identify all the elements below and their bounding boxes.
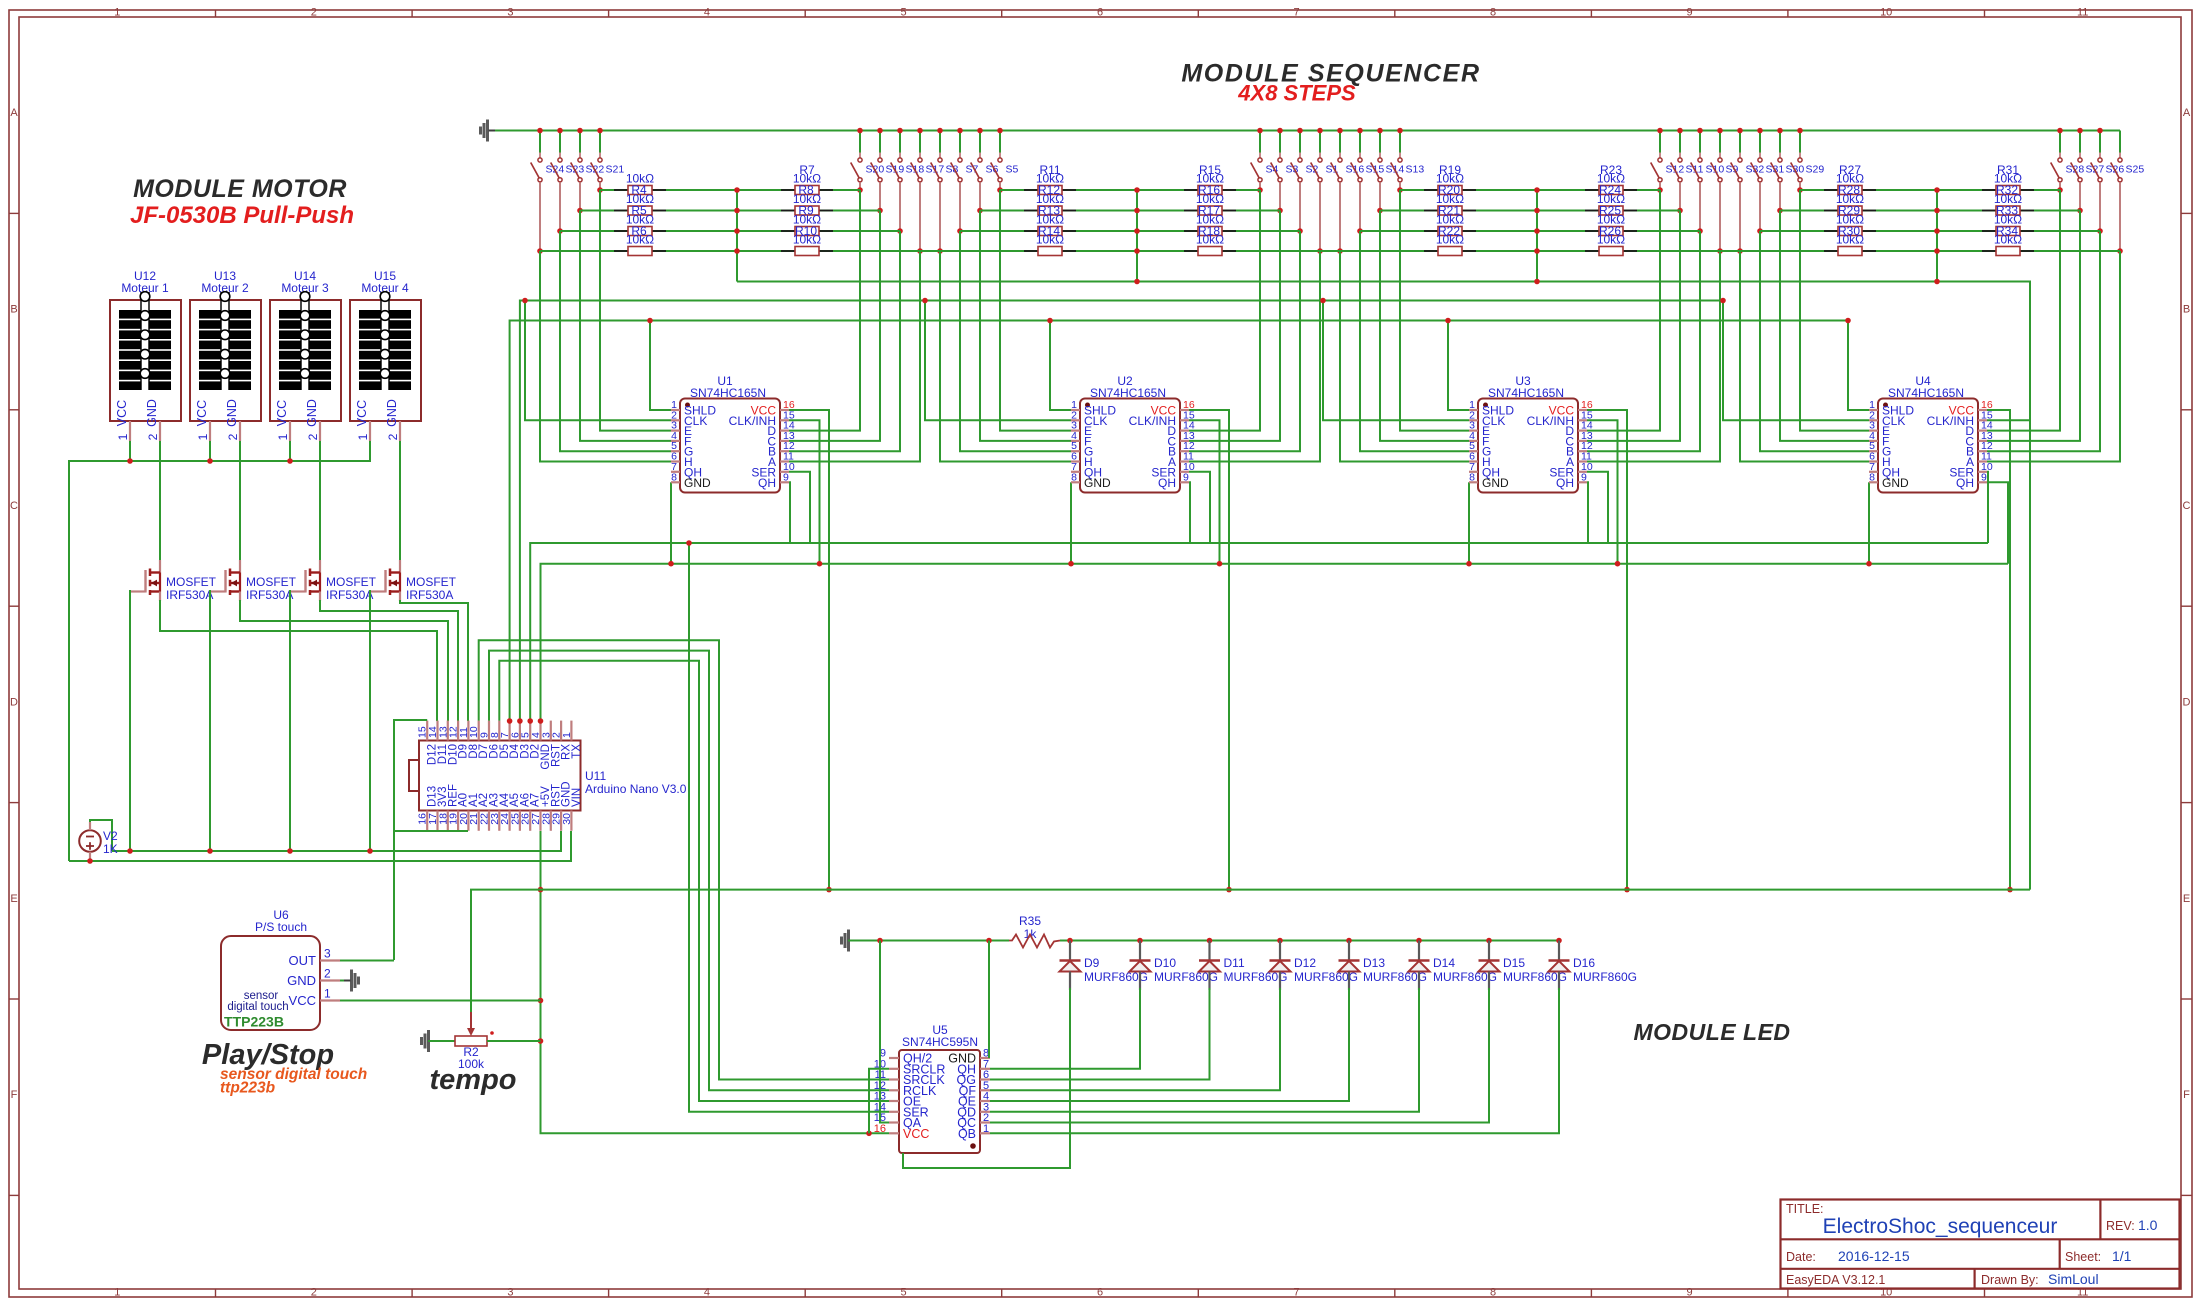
svg-text:9: 9: [1581, 471, 1587, 483]
svg-text:8: 8: [1469, 471, 1475, 483]
svg-text:10kΩ: 10kΩ: [1597, 233, 1625, 247]
resistor R17: [1184, 192, 1236, 218]
resistor R32: [1982, 172, 2034, 198]
wire input B: [1987, 231, 2100, 451]
transistor MOSFET IRF530A Q1: [130, 560, 217, 602]
svg-text:D11: D11: [1224, 956, 1245, 970]
svg-text:MODULE LED: MODULE LED: [1633, 1019, 1790, 1045]
wire CLK/INH drop: [1189, 420, 1220, 563]
svg-text:10kΩ: 10kΩ: [1836, 192, 1864, 206]
diode D15 MURF860G: [1479, 938, 1568, 990]
wire motor VCC rail: [69, 441, 370, 861]
wire gate bus: [112, 831, 561, 851]
resistor R33: [1982, 192, 2034, 218]
svg-text:10kΩ: 10kΩ: [626, 192, 654, 206]
svg-text:10kΩ: 10kΩ: [1036, 213, 1064, 227]
wire input D: [1587, 190, 1660, 431]
svg-text:D15: D15: [1503, 956, 1525, 970]
svg-text:8: 8: [1490, 1287, 1496, 1299]
svg-text:E: E: [10, 893, 17, 905]
IC U6 P/S touch TTP223B: [221, 908, 340, 1030]
wire input G: [1360, 231, 1469, 451]
svg-text:1: 1: [196, 433, 210, 440]
svg-text:10kΩ: 10kΩ: [1436, 192, 1464, 206]
wire bus SER chain: [530, 543, 1988, 721]
svg-text:ttp223b: ttp223b: [220, 1080, 276, 1097]
wire motor VCC stub: [289, 441, 291, 461]
svg-text:VCC: VCC: [355, 400, 369, 426]
svg-text:3: 3: [507, 7, 513, 19]
svg-text:2: 2: [311, 1287, 317, 1299]
wire D5 to U5 OE: [499, 661, 889, 1101]
svg-text:GND: GND: [145, 399, 159, 427]
svg-text:digital touch: digital touch: [227, 1001, 288, 1013]
svg-text:10kΩ: 10kΩ: [793, 233, 821, 247]
switch S20: [851, 128, 885, 193]
resistor R12: [1024, 172, 1076, 198]
svg-text:10kΩ: 10kΩ: [626, 172, 654, 186]
svg-text:2016-12-15: 2016-12-15: [1838, 1248, 1910, 1264]
resistor (unlabeled): [1024, 233, 1076, 256]
wire QH drop: [789, 482, 790, 543]
svg-text:30: 30: [561, 813, 573, 825]
svg-text:9: 9: [1687, 1287, 1693, 1299]
wire SHLD riser: [650, 321, 671, 411]
svg-text:1: 1: [114, 1287, 120, 1299]
svg-text:10kΩ: 10kΩ: [1597, 213, 1625, 227]
svg-text:10kΩ: 10kΩ: [1436, 172, 1464, 186]
resistor R34: [1982, 213, 2034, 239]
wire bus C: [510, 321, 1848, 722]
wire R2 left: [428, 1040, 455, 1042]
svg-text:1: 1: [983, 1123, 989, 1135]
wire resistor row 1 segments: [600, 189, 860, 191]
wire input F: [580, 211, 671, 441]
wire resistor row 4 bus: [540, 250, 2120, 252]
wire GND drop: [670, 482, 672, 563]
switch S13: [1391, 128, 1425, 193]
svg-text:JF-0530B Pull-Push: JF-0530B Pull-Push: [130, 202, 354, 229]
svg-text:GND: GND: [684, 476, 711, 490]
svg-text:U11: U11: [585, 769, 606, 783]
svg-text:GND: GND: [385, 399, 399, 427]
wire LED GND rail left: [848, 940, 1009, 942]
wire R2 right: [487, 1040, 541, 1042]
svg-text:MOSFET: MOSFET: [246, 575, 297, 589]
switch S1: [1311, 128, 1339, 254]
switch S21: [591, 128, 625, 193]
wire bus B: [520, 301, 1723, 722]
wire SER drop: [1587, 472, 1608, 543]
svg-text:8: 8: [1071, 471, 1077, 483]
svg-text:10kΩ: 10kΩ: [1836, 233, 1864, 247]
IC U5 SN74HC595N: [874, 1023, 990, 1153]
svg-text:QH: QH: [1158, 476, 1176, 490]
wire VCC drop: [1587, 410, 1627, 890]
svg-text:A: A: [10, 107, 18, 119]
wire VCC drop: [1189, 410, 1229, 890]
ground: [420, 1037, 423, 1045]
resistor (unlabeled): [1424, 233, 1476, 256]
svg-text:10kΩ: 10kΩ: [1036, 233, 1064, 247]
wire U3 input E: [1400, 190, 1469, 431]
diode D9 MURF860G: [1060, 938, 1149, 990]
wire U2 input E: [1000, 190, 1071, 431]
svg-text:8: 8: [671, 471, 677, 483]
svg-text:IRF530A: IRF530A: [166, 588, 213, 602]
switch S3: [1271, 128, 1299, 214]
motor connector U15 Moteur 4: [350, 269, 421, 441]
svg-text:TITLE:: TITLE:: [1786, 1202, 1824, 1216]
wire bus A: [737, 282, 2030, 890]
svg-text:D12: D12: [1294, 956, 1316, 970]
resistor R4: [614, 172, 666, 198]
wire MOSFET gates to V2 line: [129, 590, 131, 851]
resistor R30: [1824, 213, 1876, 239]
resistor (unlabeled): [614, 233, 666, 256]
svg-text:D: D: [2183, 696, 2191, 708]
transistor MOSFET IRF530A Q3: [290, 560, 377, 602]
wire GND drop: [1468, 482, 1470, 563]
switch S10: [1691, 128, 1725, 234]
svg-text:10kΩ: 10kΩ: [1436, 233, 1464, 247]
wire CLK/INH drop: [1987, 419, 2030, 421]
resistor R35 1k: [1009, 914, 1060, 948]
resistor R25: [1585, 192, 1637, 218]
switch S12: [1651, 128, 1685, 193]
svg-text:10kΩ: 10kΩ: [1836, 172, 1864, 186]
switch S32: [1731, 128, 1765, 254]
wire VCC drop: [789, 410, 829, 890]
svg-text:10kΩ: 10kΩ: [1196, 172, 1224, 186]
wire V2 minus rail: [69, 831, 571, 861]
wire GND rail to U5 QA: [880, 941, 889, 1123]
svg-text:1: 1: [114, 7, 120, 19]
wire input A: [789, 251, 920, 462]
wire input C: [1189, 211, 1280, 441]
svg-text:P/S touch: P/S touch: [255, 920, 307, 934]
svg-text:7: 7: [1293, 1287, 1299, 1299]
switch S15: [1351, 128, 1385, 234]
wire input H: [1340, 251, 1469, 462]
svg-text:1.0: 1.0: [2138, 1217, 2158, 1233]
wire GND drop: [1070, 482, 1072, 563]
wire D7 to U5 SRCLK: [479, 640, 889, 1079]
resistor (unlabeled): [1184, 233, 1236, 256]
wire input F: [980, 211, 1071, 441]
svg-text:IRF530A: IRF530A: [406, 588, 453, 602]
wire CLK riser: [1323, 301, 1469, 421]
svg-text:V2: V2: [103, 829, 118, 843]
wire U6 GND: [340, 980, 352, 982]
switch S26: [2091, 128, 2125, 234]
wire MOSFET sources to U11: [160, 600, 437, 721]
resistor R9: [781, 192, 833, 218]
switch S24: [531, 128, 565, 254]
svg-text:VIN: VIN: [571, 788, 583, 807]
svg-text:QH: QH: [758, 476, 776, 490]
svg-text:16: 16: [874, 1123, 886, 1135]
wire QH drop: [1987, 482, 2008, 563]
wire SER drop: [1987, 472, 1988, 543]
svg-text:S13: S13: [1406, 164, 1425, 176]
svg-text:7: 7: [1293, 7, 1299, 19]
wire motor VCC stub: [129, 441, 131, 461]
ground: [357, 977, 360, 985]
svg-text:3: 3: [507, 1287, 513, 1299]
switch S16: [1331, 128, 1365, 254]
switch S5: [991, 128, 1019, 193]
wire U6 OUT: [340, 960, 394, 962]
svg-text:10kΩ: 10kΩ: [1994, 192, 2022, 206]
diode D12 MURF860G: [1270, 938, 1359, 990]
wire input A: [1587, 251, 1720, 462]
svg-text:9: 9: [783, 471, 789, 483]
svg-text:1K: 1K: [103, 842, 118, 856]
svg-text:9: 9: [1687, 7, 1693, 19]
svg-text:3: 3: [324, 947, 331, 961]
svg-text:1/1: 1/1: [2112, 1248, 2132, 1264]
svg-text:10kΩ: 10kΩ: [1036, 192, 1064, 206]
svg-text:10kΩ: 10kΩ: [1597, 192, 1625, 206]
svg-text:GND: GND: [287, 973, 316, 988]
svg-text:R35: R35: [1019, 914, 1041, 928]
resistor (unlabeled): [1982, 233, 2034, 256]
svg-text:QH: QH: [1556, 476, 1574, 490]
svg-text:4: 4: [704, 1287, 710, 1299]
wire SHLD riser: [1448, 321, 1469, 411]
switch S14: [1371, 128, 1405, 214]
svg-text:Arduino Nano V3.0: Arduino Nano V3.0: [585, 782, 687, 796]
ground: [840, 937, 843, 945]
svg-text:C: C: [2183, 500, 2191, 512]
resistor R21: [1424, 192, 1476, 218]
switch S2: [1291, 128, 1319, 234]
wire QH drop: [1189, 482, 1190, 543]
svg-text:REV:: REV:: [2106, 1219, 2135, 1233]
wire input G: [1760, 231, 1869, 451]
switch S19: [871, 128, 905, 214]
wire V2 top hook: [90, 820, 112, 851]
svg-text:9: 9: [1981, 471, 1987, 483]
svg-text:2: 2: [146, 433, 160, 440]
transistor MOSFET IRF530A Q4: [370, 560, 457, 602]
svg-text:11: 11: [2077, 7, 2088, 19]
svg-text:E: E: [2183, 893, 2190, 905]
switch S25: [2111, 131, 2145, 254]
wire input F: [1780, 211, 1869, 441]
svg-text:2: 2: [311, 7, 317, 19]
svg-text:10kΩ: 10kΩ: [626, 213, 654, 227]
wire GND drop: [1868, 482, 1870, 563]
switch S6: [971, 128, 999, 214]
svg-text:B: B: [2183, 304, 2190, 316]
wire input D: [1987, 190, 2060, 431]
wire input B: [1189, 231, 1300, 451]
svg-text:GND: GND: [1882, 476, 1909, 490]
motor connector U14 Moteur 3: [270, 269, 341, 441]
wire U5 outputs to diodes: [990, 988, 1140, 1069]
switch S28: [2051, 128, 2085, 193]
wire U5 GND to rail: [988, 941, 990, 1059]
wire SER drop: [1189, 472, 1210, 543]
resistor R26: [1585, 213, 1637, 239]
motor connector U13 Moteur 2: [190, 269, 261, 441]
resistor R20: [1424, 172, 1476, 198]
wire SER chain to U5 SER: [689, 543, 889, 1112]
wire U6 VCC: [340, 1000, 541, 1002]
potentiometer R2 100k: [455, 1012, 494, 1071]
wire motor VCC stub: [209, 441, 211, 461]
wire input B: [789, 231, 900, 451]
switch S30: [1771, 128, 1805, 214]
wire input C: [1587, 211, 1680, 441]
wire input D: [789, 190, 860, 431]
svg-text:VCC: VCC: [275, 400, 289, 426]
switch S22: [571, 128, 605, 214]
resistor (unlabeled): [781, 233, 833, 256]
wire input G: [960, 231, 1071, 451]
svg-text:10kΩ: 10kΩ: [793, 213, 821, 227]
svg-text:D9: D9: [1084, 956, 1100, 970]
switch S9: [1711, 128, 1739, 254]
wire QH drop: [1587, 482, 1588, 543]
wire input A: [1987, 251, 2120, 462]
wire input H: [940, 251, 1071, 462]
svg-text:SN74HC595N: SN74HC595N: [902, 1035, 978, 1049]
wire D6 to U5 RCLK: [489, 651, 889, 1091]
svg-text:10: 10: [1880, 7, 1892, 19]
resistor R10: [781, 213, 833, 239]
svg-text:10kΩ: 10kΩ: [1994, 213, 2022, 227]
wire input H: [540, 251, 671, 462]
resistor R8: [781, 172, 833, 198]
svg-text:S25: S25: [2126, 164, 2145, 176]
svg-text:MOSFET: MOSFET: [406, 575, 457, 589]
svg-text:IRF530A: IRF530A: [326, 588, 373, 602]
svg-text:8: 8: [1869, 471, 1875, 483]
resistor R28: [1824, 172, 1876, 198]
wire input B: [1587, 231, 1700, 451]
switch S17: [911, 128, 945, 254]
wire D9 loop: [903, 988, 1070, 1168]
svg-text:GND: GND: [305, 399, 319, 427]
wire CLK/INH drop: [789, 420, 820, 563]
wire SHLD riser: [1848, 321, 1869, 411]
IC U4 SN74HC165N: [1869, 374, 1993, 493]
svg-text:S29: S29: [1806, 164, 1825, 176]
wire input C: [1987, 211, 2080, 441]
svg-text:1: 1: [561, 732, 573, 738]
resistor R14: [1024, 213, 1076, 239]
svg-text:9: 9: [1183, 471, 1189, 483]
resistor R24: [1585, 172, 1637, 198]
diode D16 MURF860G: [1549, 938, 1638, 990]
svg-text:2: 2: [226, 433, 240, 440]
switch S29: [1791, 128, 1825, 193]
svg-text:Drawn By:: Drawn By:: [1981, 1273, 2039, 1287]
IC U11 Arduino Nano V3.0: [409, 721, 687, 831]
svg-text:6: 6: [1097, 7, 1103, 19]
wire VCC drop: [1987, 410, 2010, 890]
resistor R22: [1424, 213, 1476, 239]
svg-text:D13: D13: [1363, 956, 1385, 970]
IC U1 SN74HC165N: [671, 374, 795, 493]
svg-text:SimLoul: SimLoul: [2048, 1271, 2099, 1287]
wire CLK riser: [1723, 301, 1869, 421]
svg-text:Date:: Date:: [1786, 1250, 1816, 1264]
svg-text:MOSFET: MOSFET: [166, 575, 217, 589]
wire resistor row 2 segments: [580, 210, 880, 212]
svg-text:10kΩ: 10kΩ: [1436, 213, 1464, 227]
junction dots on U11 pins: [507, 718, 513, 724]
svg-text:1: 1: [324, 987, 331, 1001]
switch S4: [1251, 128, 1279, 193]
diode D11 MURF860G: [1199, 938, 1288, 990]
svg-text:10kΩ: 10kΩ: [1597, 172, 1625, 186]
svg-text:10kΩ: 10kΩ: [1994, 172, 2022, 186]
svg-text:2: 2: [306, 433, 320, 440]
svg-text:MURF860G: MURF860G: [1573, 970, 1637, 984]
switch S31: [1751, 128, 1785, 234]
voltage source V2 1K: [79, 822, 118, 861]
svg-text:GND: GND: [225, 399, 239, 427]
svg-text:D: D: [10, 696, 18, 708]
svg-text:GND: GND: [1482, 476, 1509, 490]
wire input F: [1380, 211, 1469, 441]
svg-text:MOSFET: MOSFET: [326, 575, 377, 589]
wire group verticals to CLK/INH bus: [736, 190, 738, 282]
svg-text:C: C: [10, 500, 18, 512]
svg-text:VCC: VCC: [115, 400, 129, 426]
svg-text:5: 5: [900, 1287, 906, 1299]
svg-text:10kΩ: 10kΩ: [1196, 192, 1224, 206]
svg-text:QB: QB: [958, 1127, 976, 1141]
resistor R13: [1024, 192, 1076, 218]
svg-text:VCC: VCC: [195, 400, 209, 426]
wire input G: [560, 231, 671, 451]
transistor MOSFET IRF530A Q2: [210, 560, 297, 602]
switch S23: [551, 128, 585, 234]
IC U2 SN74HC165N: [1071, 374, 1195, 493]
svg-text:2: 2: [386, 433, 400, 440]
svg-text:S5: S5: [1006, 164, 1019, 176]
svg-text:F: F: [2183, 1089, 2190, 1101]
svg-text:TTP223B: TTP223B: [224, 1014, 284, 1030]
svg-text:100k: 100k: [458, 1057, 485, 1071]
wire SHLD riser: [1050, 321, 1071, 411]
svg-text:F: F: [11, 1089, 18, 1101]
ground: [479, 127, 482, 135]
svg-text:D14: D14: [1433, 956, 1455, 970]
svg-text:10kΩ: 10kΩ: [1196, 213, 1224, 227]
svg-text:TX: TX: [571, 744, 583, 759]
wire input C: [789, 211, 880, 441]
svg-text:1: 1: [116, 433, 130, 440]
diode D10 MURF860G: [1130, 938, 1219, 990]
switch S8: [931, 128, 959, 254]
title block: [1781, 1200, 2180, 1289]
svg-text:MODULE MOTOR: MODULE MOTOR: [133, 175, 347, 203]
svg-text:B: B: [10, 304, 17, 316]
svg-text:5: 5: [900, 7, 906, 19]
svg-text:10kΩ: 10kΩ: [626, 233, 654, 247]
svg-text:EasyEDA V3.12.1: EasyEDA V3.12.1: [1786, 1273, 1885, 1287]
wire U4 input E: [1800, 190, 1869, 431]
motor connector U12 Moteur 1: [110, 269, 181, 441]
svg-text:4X8 STEPS: 4X8 STEPS: [1237, 81, 1356, 106]
resistor (unlabeled): [1585, 233, 1637, 256]
